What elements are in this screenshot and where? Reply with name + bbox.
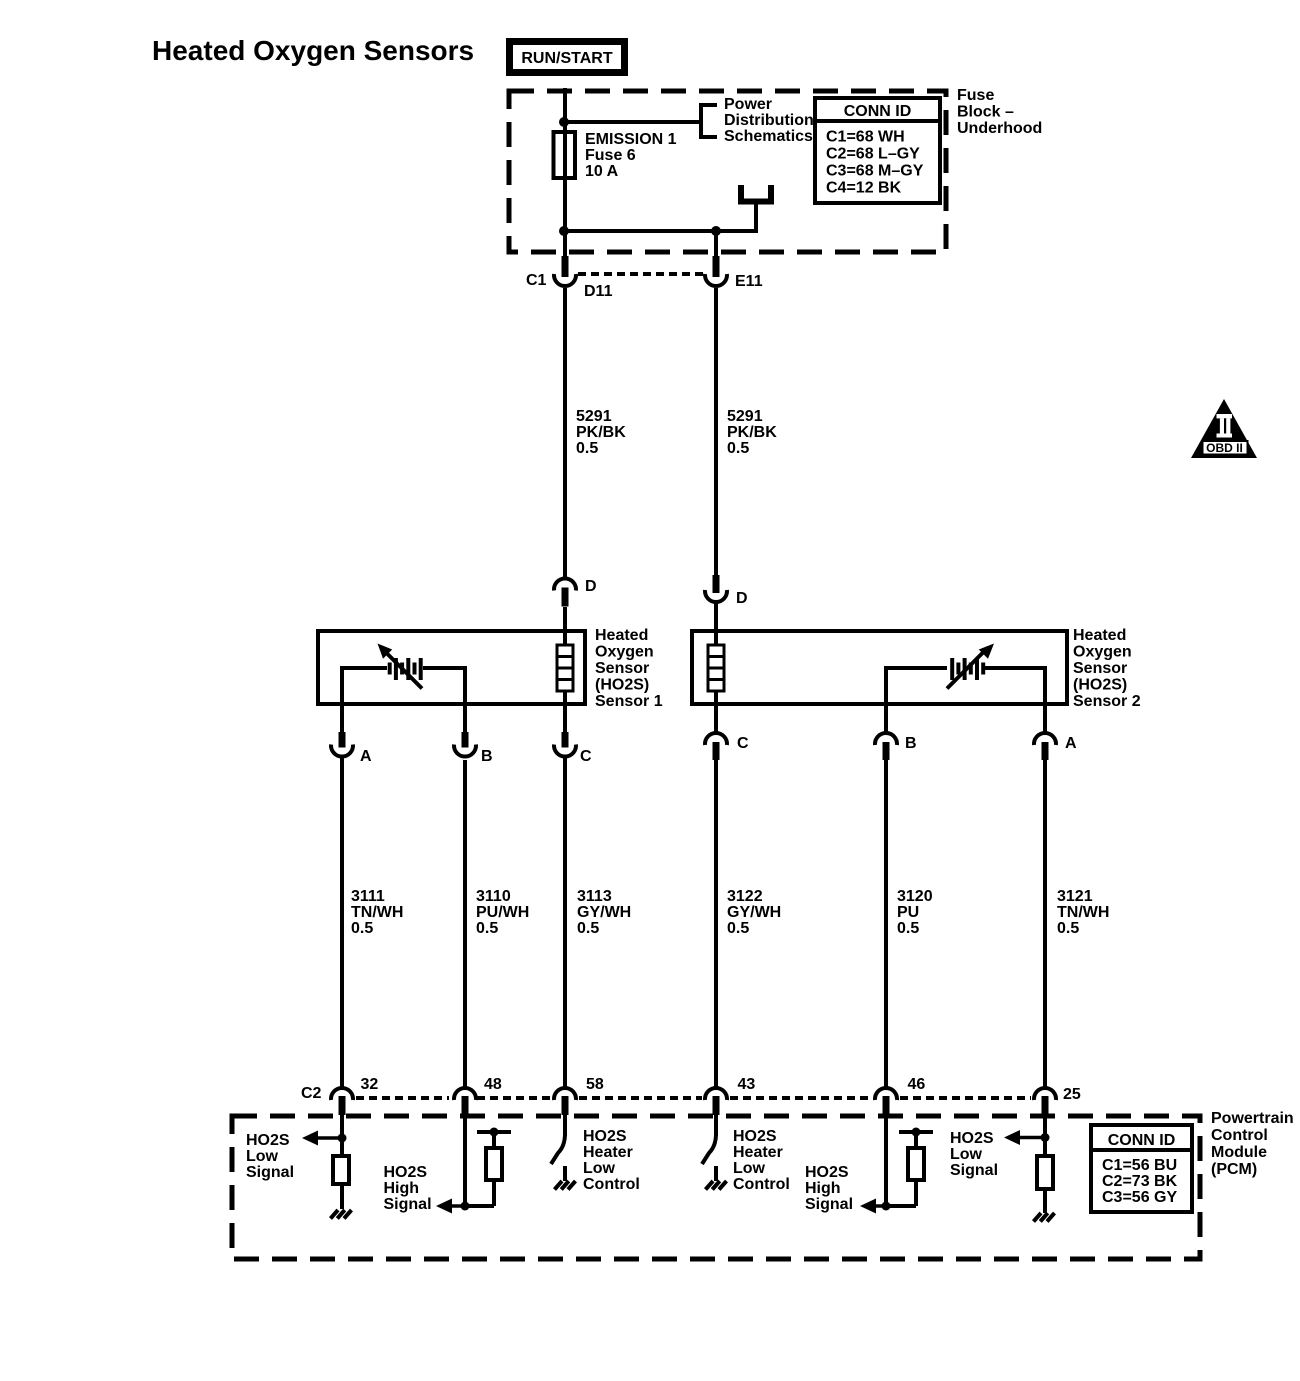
svg-text:RUN/START: RUN/START xyxy=(521,50,612,67)
svg-text:C2=68 L–GY: C2=68 L–GY xyxy=(826,146,920,163)
svg-text:C2: C2 xyxy=(301,1085,322,1102)
svg-text:Signal: Signal xyxy=(805,1196,853,1213)
svg-text:Sensor 1: Sensor 1 xyxy=(595,693,663,710)
svg-text:0.5: 0.5 xyxy=(576,440,598,457)
svg-text:Sensor 2: Sensor 2 xyxy=(1073,693,1141,710)
svg-text:GY/WH: GY/WH xyxy=(727,904,781,921)
svg-text:D: D xyxy=(736,590,748,607)
svg-text:5291: 5291 xyxy=(727,408,763,425)
svg-text:Sensor: Sensor xyxy=(595,660,649,677)
svg-text:CONN ID: CONN ID xyxy=(844,103,912,120)
svg-text:Powertrain: Powertrain xyxy=(1211,1110,1294,1127)
svg-text:C: C xyxy=(580,748,592,765)
svg-text:Power: Power xyxy=(724,96,772,113)
svg-text:Heated: Heated xyxy=(1073,627,1126,644)
svg-text:0.5: 0.5 xyxy=(897,920,919,937)
svg-text:A: A xyxy=(1065,735,1077,752)
svg-text:48: 48 xyxy=(484,1076,502,1093)
svg-text:Underhood: Underhood xyxy=(957,120,1042,137)
svg-text:Control: Control xyxy=(1211,1127,1268,1144)
svg-text:3120: 3120 xyxy=(897,888,933,905)
svg-text:CONN ID: CONN ID xyxy=(1108,1132,1176,1149)
svg-text:B: B xyxy=(905,735,917,752)
svg-text:B: B xyxy=(481,748,493,765)
svg-text:Schematics: Schematics xyxy=(724,128,813,145)
svg-text:3110: 3110 xyxy=(476,888,511,905)
svg-text:5291: 5291 xyxy=(576,408,612,425)
svg-text:EMISSION 1: EMISSION 1 xyxy=(585,131,677,148)
svg-text:C2=73 BK: C2=73 BK xyxy=(1102,1173,1178,1190)
svg-text:HO2S: HO2S xyxy=(950,1130,994,1147)
svg-text:Fuse 6: Fuse 6 xyxy=(585,147,636,164)
svg-text:OBD II: OBD II xyxy=(1206,441,1243,455)
svg-text:TN/WH: TN/WH xyxy=(351,904,403,921)
svg-text:Block –: Block – xyxy=(957,104,1014,121)
svg-text:(HO2S): (HO2S) xyxy=(595,677,649,694)
svg-text:Heated Oxygen Sensors: Heated Oxygen Sensors xyxy=(152,35,474,66)
svg-text:Low: Low xyxy=(950,1146,983,1163)
svg-text:Control: Control xyxy=(733,1176,790,1193)
svg-text:C3=68 M–GY: C3=68 M–GY xyxy=(826,163,924,180)
svg-text:PU: PU xyxy=(897,904,919,921)
svg-text:Low: Low xyxy=(733,1160,766,1177)
svg-text:Signal: Signal xyxy=(384,1196,432,1213)
svg-text:46: 46 xyxy=(908,1076,926,1093)
svg-text:43: 43 xyxy=(738,1076,756,1093)
svg-text:A: A xyxy=(360,748,372,765)
svg-text:C: C xyxy=(737,735,749,752)
svg-text:0.5: 0.5 xyxy=(577,920,599,937)
svg-text:Oxygen: Oxygen xyxy=(595,644,654,661)
svg-text:GY/WH: GY/WH xyxy=(577,904,631,921)
svg-text:Oxygen: Oxygen xyxy=(1073,644,1132,661)
svg-text:Heater: Heater xyxy=(583,1144,633,1161)
svg-text:0.5: 0.5 xyxy=(351,920,373,937)
svg-text:3121: 3121 xyxy=(1057,888,1093,905)
svg-text:25: 25 xyxy=(1063,1086,1081,1103)
svg-text:Signal: Signal xyxy=(246,1164,294,1181)
svg-text:High: High xyxy=(384,1180,420,1197)
svg-text:3111: 3111 xyxy=(351,888,385,905)
svg-text:TN/WH: TN/WH xyxy=(1057,904,1109,921)
svg-text:0.5: 0.5 xyxy=(1057,920,1079,937)
svg-text:0.5: 0.5 xyxy=(727,440,749,457)
svg-text:C1=56 BU: C1=56 BU xyxy=(1102,1157,1177,1174)
svg-text:PU/WH: PU/WH xyxy=(476,904,529,921)
svg-text:(HO2S): (HO2S) xyxy=(1073,677,1127,694)
svg-text:HO2S: HO2S xyxy=(246,1132,290,1149)
svg-text:Low: Low xyxy=(246,1148,279,1165)
svg-text:Heater: Heater xyxy=(733,1144,783,1161)
svg-text:58: 58 xyxy=(586,1076,604,1093)
svg-text:3113: 3113 xyxy=(577,888,612,905)
svg-text:C4=12 BK: C4=12 BK xyxy=(826,180,902,197)
svg-text:0.5: 0.5 xyxy=(476,920,498,937)
svg-text:(PCM): (PCM) xyxy=(1211,1161,1257,1178)
svg-text:10 A: 10 A xyxy=(585,163,619,180)
svg-text:E11: E11 xyxy=(735,273,763,290)
svg-text:C1: C1 xyxy=(526,272,547,289)
svg-text:Sensor: Sensor xyxy=(1073,660,1127,677)
svg-text:HO2S: HO2S xyxy=(733,1128,777,1145)
svg-text:Module: Module xyxy=(1211,1144,1267,1161)
svg-text:Low: Low xyxy=(583,1160,616,1177)
svg-text:0.5: 0.5 xyxy=(727,920,749,937)
svg-text:Fuse: Fuse xyxy=(957,87,994,104)
svg-text:C3=56 GY: C3=56 GY xyxy=(1102,1189,1177,1206)
svg-text:Signal: Signal xyxy=(950,1162,998,1179)
svg-text:Control: Control xyxy=(583,1176,640,1193)
svg-text:HO2S: HO2S xyxy=(583,1128,627,1145)
svg-text:PK/BK: PK/BK xyxy=(727,424,777,441)
svg-text:32: 32 xyxy=(361,1076,379,1093)
svg-text:PK/BK: PK/BK xyxy=(576,424,626,441)
svg-text:C1=68 WH: C1=68 WH xyxy=(826,129,905,146)
svg-text:High: High xyxy=(805,1180,841,1197)
svg-text:HO2S: HO2S xyxy=(805,1164,849,1181)
svg-text:HO2S: HO2S xyxy=(384,1164,428,1181)
svg-text:Heated: Heated xyxy=(595,627,648,644)
svg-text:Distribution: Distribution xyxy=(724,112,814,129)
svg-text:D: D xyxy=(585,578,597,595)
svg-text:3122: 3122 xyxy=(727,888,763,905)
svg-text:D11: D11 xyxy=(584,283,613,300)
